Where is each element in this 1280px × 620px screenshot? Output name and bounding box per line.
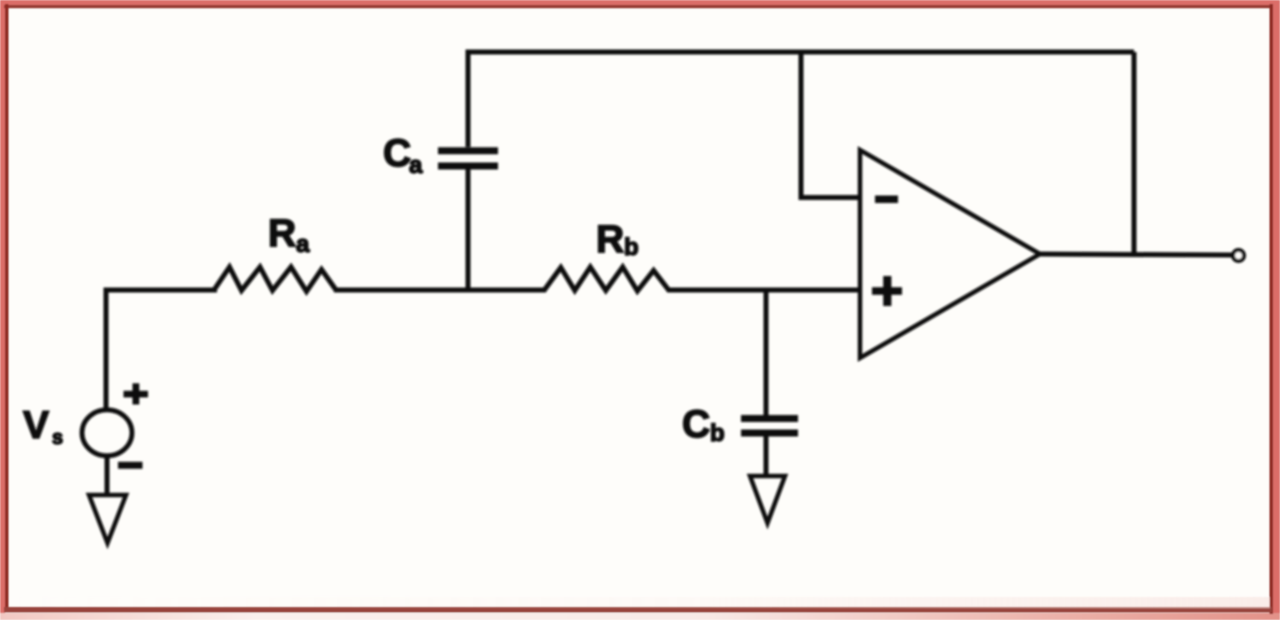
label Ca xyxy=(383,132,423,179)
wire: top feedback horizontal xyxy=(468,50,1134,55)
svg-text:s: s xyxy=(52,427,63,449)
svg-text:a: a xyxy=(296,231,310,258)
wire: Cb branch vertical xyxy=(764,290,769,415)
op-amp U1 xyxy=(860,150,1040,358)
svg-text:V: V xyxy=(23,404,49,447)
capacitor C_b xyxy=(741,419,798,434)
capacitor C_a xyxy=(438,151,498,166)
svg-text:C: C xyxy=(383,132,411,175)
wire: node B segment from Rb to op-amp + input xyxy=(667,288,860,293)
resistor R_b xyxy=(544,267,669,291)
svg-text:C: C xyxy=(682,403,710,446)
ground (below Cb) xyxy=(750,476,785,523)
label Ra xyxy=(268,212,310,258)
voltage source Vs xyxy=(82,383,148,469)
wire: Ca bottom vertical to node A xyxy=(466,170,471,291)
label Rb xyxy=(596,218,639,261)
label Vs xyxy=(23,404,63,449)
wire: output xyxy=(1038,254,1233,255)
label Cb xyxy=(682,403,725,447)
output terminal node xyxy=(1233,250,1244,261)
svg-text:b: b xyxy=(710,420,725,447)
wire: Vs to ground xyxy=(105,456,110,495)
ground (below Vs) xyxy=(89,495,126,543)
wire: right feedback vertical xyxy=(1132,52,1137,254)
wire: Cb to ground xyxy=(764,436,769,477)
wire: inverting input horizontal xyxy=(799,195,861,200)
resistor R_a xyxy=(214,267,336,292)
wire: node A segment between Ra and Rb xyxy=(334,288,546,293)
svg-text:a: a xyxy=(409,152,423,179)
wire: left horizontal from source xyxy=(106,290,217,412)
svg-text:b: b xyxy=(624,234,639,261)
svg-text:R: R xyxy=(596,218,624,261)
wire: Ca top vertical xyxy=(466,50,471,148)
wire: feedback branch vertical to inverting input xyxy=(799,52,804,198)
svg-text:R: R xyxy=(268,212,296,255)
